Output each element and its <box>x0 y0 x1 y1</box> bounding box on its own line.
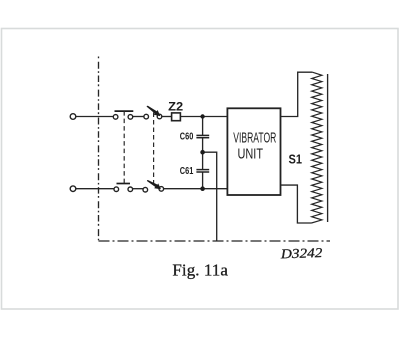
svg-text:UNIT: UNIT <box>238 146 264 162</box>
svg-text:S1: S1 <box>289 152 303 167</box>
svg-text:D3242: D3242 <box>279 245 322 261</box>
svg-text:Fig. 11a: Fig. 11a <box>172 261 228 280</box>
svg-text:C61: C61 <box>180 165 194 177</box>
svg-text:Z2: Z2 <box>168 101 183 113</box>
svg-text:VIBRATOR: VIBRATOR <box>233 131 276 147</box>
svg-text:C60: C60 <box>180 131 194 143</box>
